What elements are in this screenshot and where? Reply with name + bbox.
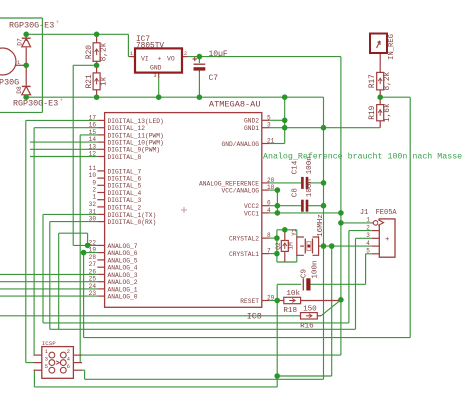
svg-text:7: 7 [267, 248, 271, 255]
svg-text:DIGITAL_6: DIGITAL_6 [108, 176, 142, 183]
svg-text:R17: R17 [369, 74, 377, 88]
svg-text:C7: C7 [209, 74, 219, 83]
svg-text:DIGITAL_10(PWM): DIGITAL_10(PWM) [108, 140, 164, 147]
svg-text:RESET: RESET [240, 298, 259, 305]
svg-text:28: 28 [89, 254, 97, 261]
svg-text:1M: 1M [288, 242, 295, 250]
svg-text:+: + [158, 55, 162, 62]
svg-text:ANALOG_5: ANALOG_5 [108, 257, 138, 264]
svg-text:DIGITAL_12: DIGITAL_12 [108, 125, 146, 132]
svg-text:3: 3 [45, 355, 48, 362]
svg-text:21: 21 [267, 138, 275, 145]
svg-text:32: 32 [89, 201, 97, 208]
svg-text:DIGITAL_11(PWM): DIGITAL_11(PWM) [108, 132, 164, 139]
svg-text:R21: R21 [86, 74, 94, 88]
svg-text:100n: 100n [312, 260, 320, 278]
svg-text:DIGITAL_7: DIGITAL_7 [108, 168, 142, 175]
svg-text:DIGITAL_3: DIGITAL_3 [108, 197, 142, 204]
svg-text:1: 1 [366, 217, 370, 224]
svg-text:Analog_Reference braucht 100n: Analog_Reference braucht 100n nach Masse [263, 151, 462, 161]
svg-text:1k: 1k [100, 76, 108, 86]
svg-text:20: 20 [267, 177, 275, 184]
svg-text:VO: VO [167, 55, 175, 62]
svg-text:ICSP: ICSP [42, 340, 56, 347]
svg-text:15: 15 [89, 129, 97, 136]
svg-text:29: 29 [267, 295, 275, 302]
svg-text:13: 13 [89, 143, 97, 150]
svg-text:27: 27 [89, 261, 97, 268]
svg-text:3: 3 [153, 73, 156, 79]
svg-text:5: 5 [267, 114, 271, 121]
svg-text:2: 2 [184, 51, 187, 57]
svg-text:3: 3 [366, 232, 370, 239]
svg-text:DIGITAL_9(PWM): DIGITAL_9(PWM) [108, 147, 161, 154]
svg-text:ANALOG_REFERENCE: ANALOG_REFERENCE [199, 180, 259, 187]
svg-text:C14: C14 [292, 160, 300, 174]
svg-text:ANALOG_0: ANALOG_0 [108, 294, 138, 301]
svg-text:DIGITAL_2: DIGITAL_2 [108, 204, 142, 211]
svg-text:8,2k: 8,2k [384, 71, 392, 90]
svg-text:DIGITAL_0(RX): DIGITAL_0(RX) [108, 219, 157, 226]
svg-text:ANALOG_4: ANALOG_4 [108, 265, 138, 272]
svg-text:2: 2 [366, 224, 370, 231]
svg-text:1: 1 [17, 60, 20, 66]
svg-text:RGP30G-E3: RGP30G-E3 [13, 99, 58, 109]
svg-text:°: ° [60, 99, 63, 105]
svg-text:4: 4 [366, 240, 370, 247]
svg-text:ANALOG_2: ANALOG_2 [108, 279, 138, 286]
svg-text:VCC/ANALOG: VCC/ANALOG [221, 188, 259, 195]
svg-text:RGP30G: RGP30G [0, 78, 19, 88]
svg-text:16MHz: 16MHz [317, 214, 325, 237]
svg-text:25: 25 [89, 276, 97, 283]
svg-text:R19: R19 [369, 105, 377, 119]
svg-text:C8: C8 [292, 188, 300, 198]
svg-text:150: 150 [303, 305, 317, 313]
svg-text:R18: R18 [283, 307, 297, 315]
svg-text:DIGITAL_13(LED): DIGITAL_13(LED) [108, 118, 164, 125]
svg-text:4: 4 [267, 207, 271, 214]
svg-text:18: 18 [267, 184, 275, 191]
svg-text:6: 6 [267, 200, 271, 207]
svg-text:23: 23 [89, 290, 97, 297]
svg-text:14: 14 [89, 136, 97, 143]
svg-text:DIGITAL_8: DIGITAL_8 [108, 154, 142, 161]
svg-text:24: 24 [89, 283, 97, 290]
svg-text:ATMEGA8-AU: ATMEGA8-AU [209, 99, 261, 109]
svg-text:GND/ANALOG: GND/ANALOG [221, 141, 259, 148]
svg-text:DIGITAL_4: DIGITAL_4 [108, 190, 142, 197]
svg-text:IN_REG: IN_REG [388, 34, 396, 60]
svg-text:CRYSTAL1: CRYSTAL1 [229, 251, 259, 258]
svg-text:GND: GND [150, 65, 162, 72]
svg-text:10k: 10k [286, 290, 300, 298]
svg-text:5: 5 [366, 248, 370, 255]
svg-text:°: ° [56, 21, 59, 27]
svg-text:5: 5 [45, 363, 48, 370]
svg-text:ANALOG_1: ANALOG_1 [108, 286, 138, 293]
svg-text:17: 17 [89, 114, 97, 121]
svg-text:12: 12 [89, 151, 97, 158]
svg-text:+: + [385, 236, 390, 244]
svg-text:DIGITAL_5: DIGITAL_5 [108, 183, 142, 190]
svg-text:9: 9 [92, 179, 96, 186]
svg-text:26: 26 [89, 268, 97, 275]
svg-text:100n: 100n [306, 156, 314, 174]
svg-text:GND1: GND1 [244, 125, 259, 132]
svg-text:RGP30G-E3: RGP30G-E3 [9, 21, 54, 31]
svg-text:10: 10 [89, 172, 97, 179]
svg-text:VCC1: VCC1 [244, 210, 259, 217]
svg-text:7805TV: 7805TV [136, 43, 164, 51]
svg-text:2: 2 [92, 187, 96, 194]
svg-text:31: 31 [89, 208, 97, 215]
svg-text:16: 16 [89, 122, 97, 129]
svg-text:30: 30 [89, 216, 97, 223]
svg-text:IC8: IC8 [247, 312, 262, 322]
svg-text:8,2k: 8,2k [100, 42, 108, 61]
svg-text:DIGITAL_1(TX): DIGITAL_1(TX) [108, 212, 157, 219]
svg-text:3: 3 [267, 122, 271, 129]
svg-text:1: 1 [92, 194, 96, 201]
svg-text:R16: R16 [300, 322, 314, 330]
svg-text:VCC2: VCC2 [244, 203, 259, 210]
svg-text:C9: C9 [301, 269, 309, 279]
svg-text:ANALOG_6: ANALOG_6 [108, 250, 138, 257]
svg-text:19: 19 [89, 247, 97, 254]
svg-text:8: 8 [267, 232, 271, 239]
svg-text:ANALOG_3: ANALOG_3 [108, 272, 138, 279]
svg-text:6: 6 [67, 363, 70, 370]
svg-text:FE05A: FE05A [376, 209, 398, 217]
svg-text:11: 11 [89, 165, 97, 172]
svg-text:2: 2 [67, 348, 70, 355]
svg-text:100n: 100n [306, 179, 314, 197]
svg-text:10µF: 10µF [209, 50, 228, 59]
svg-text:D7: D7 [17, 38, 24, 46]
svg-text:22: 22 [89, 239, 97, 246]
svg-text:VI: VI [141, 55, 149, 62]
svg-text:R20: R20 [86, 45, 94, 59]
svg-text:Q2: Q2 [275, 242, 282, 250]
svg-text:CRYSTAL2: CRYSTAL2 [229, 236, 259, 243]
svg-text:GND2: GND2 [244, 118, 259, 125]
svg-text:Y1: Y1 [291, 228, 298, 236]
svg-text:1,6k: 1,6k [384, 103, 392, 122]
svg-text:ANALOG_7: ANALOG_7 [108, 243, 138, 250]
svg-text:1: 1 [130, 51, 133, 57]
